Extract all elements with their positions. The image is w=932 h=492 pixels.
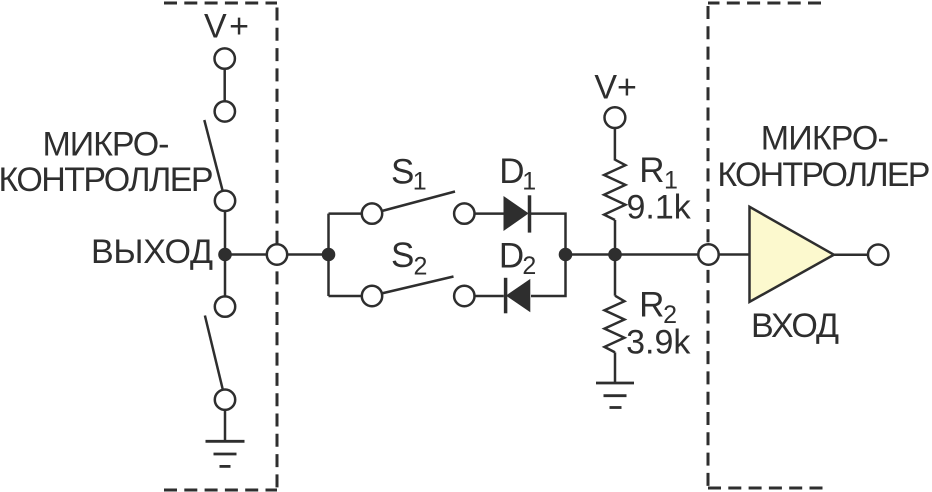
svg-text:3.9k: 3.9k <box>626 323 691 361</box>
ground (divider) <box>596 383 634 408</box>
terminal circle lower switch bottom <box>215 390 235 410</box>
microcontroller box MK1 (left, dashed) <box>164 3 277 490</box>
wire to S1 left terminal <box>329 212 362 215</box>
ground (left box) <box>206 441 245 466</box>
switch S1 right terminal <box>454 203 474 223</box>
svg-text:2: 2 <box>522 252 536 280</box>
buffer U1 (input gate) <box>750 207 834 302</box>
wire buffer output <box>834 253 868 256</box>
wire R2 to ground <box>614 352 617 383</box>
junction dot output node <box>218 248 232 262</box>
label МИКРО-КОНТРОЛЛЕР (left) <box>0 126 214 200</box>
terminal circle buffer output <box>868 245 888 265</box>
svg-text:ВЫХОД: ВЫХОД <box>91 233 213 271</box>
switch S2 label <box>391 236 427 281</box>
svg-text:V+: V+ <box>594 68 637 106</box>
svg-text:1: 1 <box>522 168 536 196</box>
node branch junction (left of S1/S2) <box>322 248 336 262</box>
resistor R1 label <box>639 151 678 195</box>
switch arm (upper high-side switch) <box>204 120 222 191</box>
terminal circle V+ (right) <box>605 107 626 128</box>
terminal circle upper switch bottom <box>215 191 235 211</box>
wire divider node to R2 <box>614 255 617 296</box>
wire to S2 left terminal <box>329 295 362 298</box>
wire D2 anode to summing node <box>531 255 566 297</box>
svg-text:D: D <box>499 237 524 276</box>
svg-text:S: S <box>391 153 414 192</box>
switch arm (lower low-side switch) <box>205 316 223 391</box>
resistor R2 label <box>639 286 677 329</box>
microcontroller box MK2 (right, dashed) <box>708 3 824 488</box>
wire upper switch to output node <box>224 211 227 296</box>
resistor R1 zigzag <box>604 160 625 220</box>
pin circle on left box boundary <box>267 244 287 264</box>
terminal circle lower switch top <box>215 296 235 316</box>
svg-text:МИКРО-: МИКРО- <box>43 126 170 164</box>
switch S1 label <box>391 153 427 196</box>
svg-text:1: 1 <box>413 168 427 196</box>
wire V+ terminal to upper switch <box>223 69 226 101</box>
svg-text:R: R <box>639 286 664 325</box>
wire S2 to D2 cathode <box>475 295 504 298</box>
svg-text:КОНТРОЛЛЕР: КОНТРОЛЛЕР <box>717 156 930 194</box>
junction dot divider node <box>608 248 622 262</box>
svg-text:V+: V+ <box>204 8 249 46</box>
svg-text:2: 2 <box>414 253 428 281</box>
switch S2 left terminal <box>362 286 382 306</box>
switch S2 right terminal <box>454 286 474 306</box>
svg-text:МИКРО-: МИКРО- <box>761 120 889 158</box>
diode D1 (anode left, cathode right) <box>504 195 530 232</box>
svg-text:S: S <box>391 236 414 275</box>
wire lower switch to ground <box>224 410 227 441</box>
wire D1 cathode to summing node <box>531 214 566 255</box>
terminal circle V+ (left) <box>215 48 235 68</box>
switch S1 left terminal <box>362 203 382 223</box>
wire R1 to divider node <box>614 220 617 255</box>
wire output node to boundary pin <box>225 253 267 256</box>
svg-text:9.1k: 9.1k <box>627 189 692 227</box>
wire branch vertical (S1/S2 split) <box>327 214 330 296</box>
wire pin to buffer input <box>719 253 750 256</box>
pin circle on right box boundary <box>698 244 718 264</box>
wire pin to S1/S2 branch node <box>287 253 328 256</box>
svg-text:D: D <box>499 152 524 191</box>
wire summing node to divider node and right pin <box>566 253 699 256</box>
svg-text:ВХОД: ВХОД <box>751 307 839 345</box>
switch S2 arm <box>382 277 454 294</box>
resistor R2 zigzag <box>605 296 625 353</box>
svg-text:КОНТРОЛЛЕР: КОНТРОЛЛЕР <box>0 161 214 199</box>
wire V+ to R1 <box>614 128 617 161</box>
terminal circle upper switch top <box>215 101 235 121</box>
junction dot diode summing node <box>559 248 573 262</box>
diode D2 label <box>499 237 536 280</box>
label МИКРО-КОНТРОЛЛЕР (right) <box>717 120 930 195</box>
wire S1 to D1 anode <box>475 212 505 215</box>
diode D2 (cathode left, anode right) <box>506 278 530 314</box>
switch S1 arm <box>382 192 455 212</box>
diode D1 label <box>499 152 536 196</box>
svg-text:R: R <box>639 151 664 190</box>
